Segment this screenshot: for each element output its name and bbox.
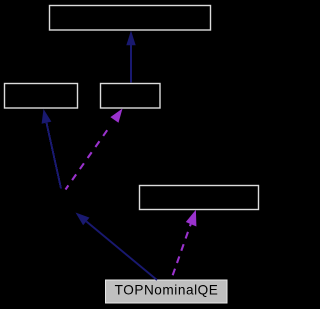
- node box right (label invisible): [140, 186, 259, 210]
- node box row2-left (label invisible): [5, 84, 78, 109]
- wire: usage edge TOPNominalQE to right box (dashed darkorchid): [171, 223, 191, 280]
- node box TOPNominalQE (current node, grey fill): [106, 280, 228, 303]
- wire: inheritance edge TOPNominalQE to hidden-node (solid navy): [86, 221, 157, 280]
- wire: usage edge hidden-node to row2-middle box (dashed darkorchid): [66, 128, 109, 189]
- arrowhead to right box: [186, 210, 197, 227]
- svg-text:TOPNominalQE: TOPNominalQE: [115, 282, 219, 297]
- wire: inheritance edge middle-box to top-box (solid navy): [130, 45, 132, 83]
- node box top (base class, label invisible): [50, 6, 211, 31]
- arrowhead to row2-middle box: [110, 109, 122, 123]
- arrowhead to hidden node: [76, 213, 90, 226]
- node box row2-middle (label invisible): [101, 84, 161, 109]
- arrowhead to top box: [126, 31, 135, 46]
- wire: inheritance edge hidden-node to row2-left box (solid navy): [47, 123, 62, 189]
- arrowhead to row2-left box: [42, 109, 52, 124]
